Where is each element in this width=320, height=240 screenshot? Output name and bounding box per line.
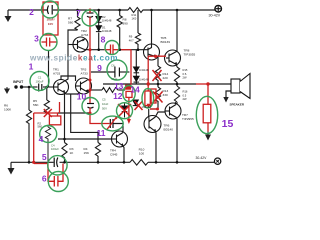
svg-text:30-42V: 30-42V: [209, 14, 221, 18]
svg-text:1N4148: 1N4148: [139, 77, 149, 81]
svg-text:7: 7: [76, 8, 81, 18]
svg-text:INPUT: INPUT: [13, 80, 24, 84]
svg-text:10: 10: [77, 92, 87, 102]
svg-text:5: 5: [42, 152, 47, 162]
svg-text:100: 100: [139, 151, 144, 155]
svg-text:2W: 2W: [183, 97, 187, 101]
svg-text:10uF: 10uF: [102, 102, 109, 106]
svg-text:1N4148: 1N4148: [102, 29, 112, 33]
svg-text:R16: R16: [183, 90, 188, 94]
svg-text:15: 15: [222, 118, 234, 130]
svg-text:BD140: BD140: [164, 127, 174, 131]
svg-text:9: 9: [97, 63, 102, 73]
svg-text:R9: R9: [129, 35, 133, 39]
svg-text:4: 4: [39, 134, 44, 144]
svg-text:560: 560: [38, 125, 43, 129]
svg-text:www.spidekeat.com: www.spidekeat.com: [29, 54, 118, 63]
svg-text:4K7: 4K7: [129, 39, 134, 43]
svg-text:10V: 10V: [48, 22, 54, 26]
svg-text:1N4148: 1N4148: [142, 105, 152, 109]
svg-text:A733: A733: [81, 71, 89, 75]
svg-text:SPEAKER: SPEAKER: [230, 103, 245, 107]
svg-text:A733: A733: [53, 71, 61, 75]
svg-text:1N4148: 1N4148: [102, 18, 112, 22]
svg-text:100uF: 100uF: [36, 80, 44, 84]
svg-text:390: 390: [123, 22, 128, 26]
svg-text:50V: 50V: [102, 107, 107, 111]
svg-text:R11: R11: [132, 13, 137, 17]
svg-text:30-42V: 30-42V: [196, 156, 208, 160]
svg-text:12: 12: [113, 91, 123, 101]
svg-text:0.5: 0.5: [183, 93, 187, 97]
svg-text:A733: A733: [81, 33, 89, 37]
svg-text:TIP2955: TIP2955: [182, 117, 194, 121]
svg-text:C945: C945: [110, 152, 118, 156]
svg-text:3: 3: [34, 34, 39, 44]
svg-text:2: 2: [29, 7, 34, 17]
svg-text:220: 220: [163, 76, 168, 80]
svg-text:56K: 56K: [33, 103, 39, 107]
svg-text:1K0: 1K0: [132, 17, 137, 21]
svg-text:2W: 2W: [183, 76, 187, 80]
svg-text:1N4148: 1N4148: [139, 68, 149, 72]
svg-text:14: 14: [130, 85, 140, 95]
svg-text:TIP3055: TIP3055: [184, 52, 196, 56]
svg-text:560: 560: [68, 21, 73, 25]
svg-text:100uF: 100uF: [51, 147, 59, 151]
svg-text:1: 1: [29, 62, 34, 72]
svg-text:47uF: 47uF: [111, 77, 118, 81]
svg-text:330: 330: [163, 93, 168, 97]
svg-text:0.5-: 0.5-: [183, 72, 188, 76]
svg-text:BD139: BD139: [161, 40, 171, 44]
svg-text:11: 11: [97, 128, 106, 138]
svg-text:13: 13: [114, 81, 124, 91]
svg-text:15K: 15K: [84, 151, 90, 155]
svg-text:6: 6: [42, 174, 47, 184]
svg-text:10uF/: 10uF/: [46, 18, 54, 22]
svg-text:R15: R15: [183, 68, 188, 72]
svg-text:8: 8: [101, 35, 106, 45]
svg-text:100K: 100K: [4, 108, 12, 112]
svg-text:C6: C6: [111, 64, 115, 68]
svg-text:C5: C5: [102, 98, 106, 102]
